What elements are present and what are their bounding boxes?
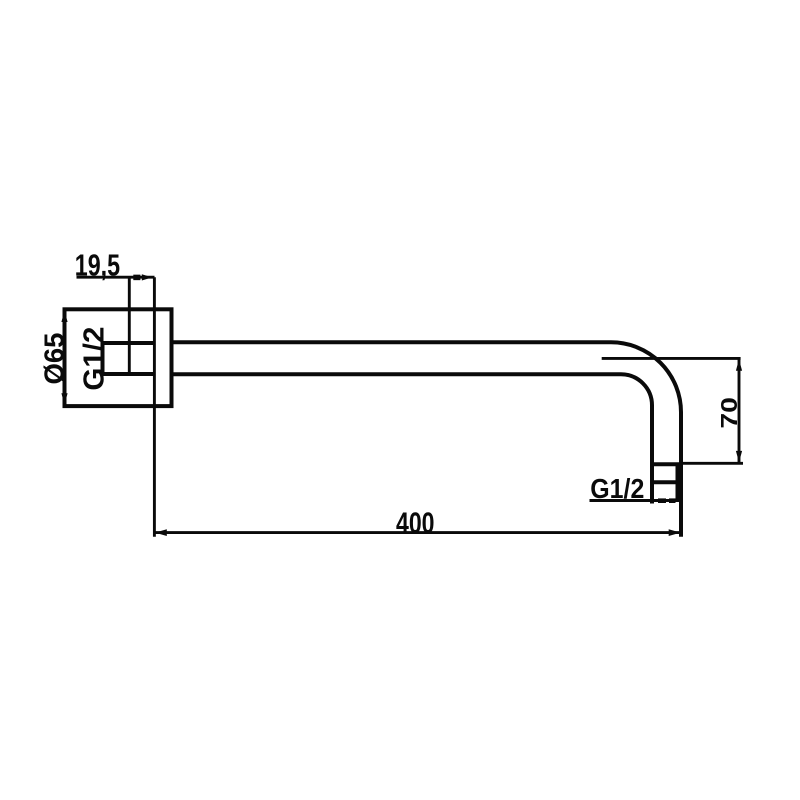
svg-text:70: 70 — [716, 397, 742, 429]
outlet thread shoulder — [652, 462, 681, 466]
svg-text:Ø65: Ø65 — [39, 333, 70, 385]
dim 70 shoulder extension — [681, 462, 743, 465]
svg-text:19,5: 19,5 — [75, 248, 120, 283]
arrow dia65 down — [61, 393, 67, 405]
dim 19.5 dash — [133, 275, 140, 281]
wall flange square plate — [65, 309, 172, 406]
arrow dia65 up — [61, 311, 67, 323]
arrow 70 up — [736, 359, 742, 371]
dim 70 line — [738, 358, 741, 463]
G1/2 thread pocket inside flange — [103, 343, 155, 374]
svg-text:G1/2: G1/2 — [590, 473, 644, 504]
dim 19.5 inner extension line — [128, 277, 131, 373]
dim 70 centerline extension — [602, 357, 741, 360]
G1/2 leader dash 1 — [658, 498, 666, 503]
dim 400 line — [154, 531, 681, 534]
arm bottom inner profile with bend — [172, 374, 653, 503]
outlet thread mid line — [652, 480, 678, 484]
arrow 400 right — [669, 529, 681, 536]
outlet thread right line — [676, 464, 680, 500]
G1/2 leader dash 2 — [669, 498, 676, 503]
shared extension line left (19.5 / 400) — [153, 277, 156, 537]
dim 19.5 line — [77, 276, 155, 279]
G1/2 leader underline — [590, 499, 682, 502]
arrow 19.5 right — [142, 274, 152, 280]
svg-text:400: 400 — [396, 507, 435, 540]
arrow 70 down — [736, 451, 742, 463]
svg-text:G1/2: G1/2 — [78, 327, 110, 391]
arrow 400 left — [155, 529, 167, 536]
arm top outer profile with bend — [172, 342, 682, 537]
